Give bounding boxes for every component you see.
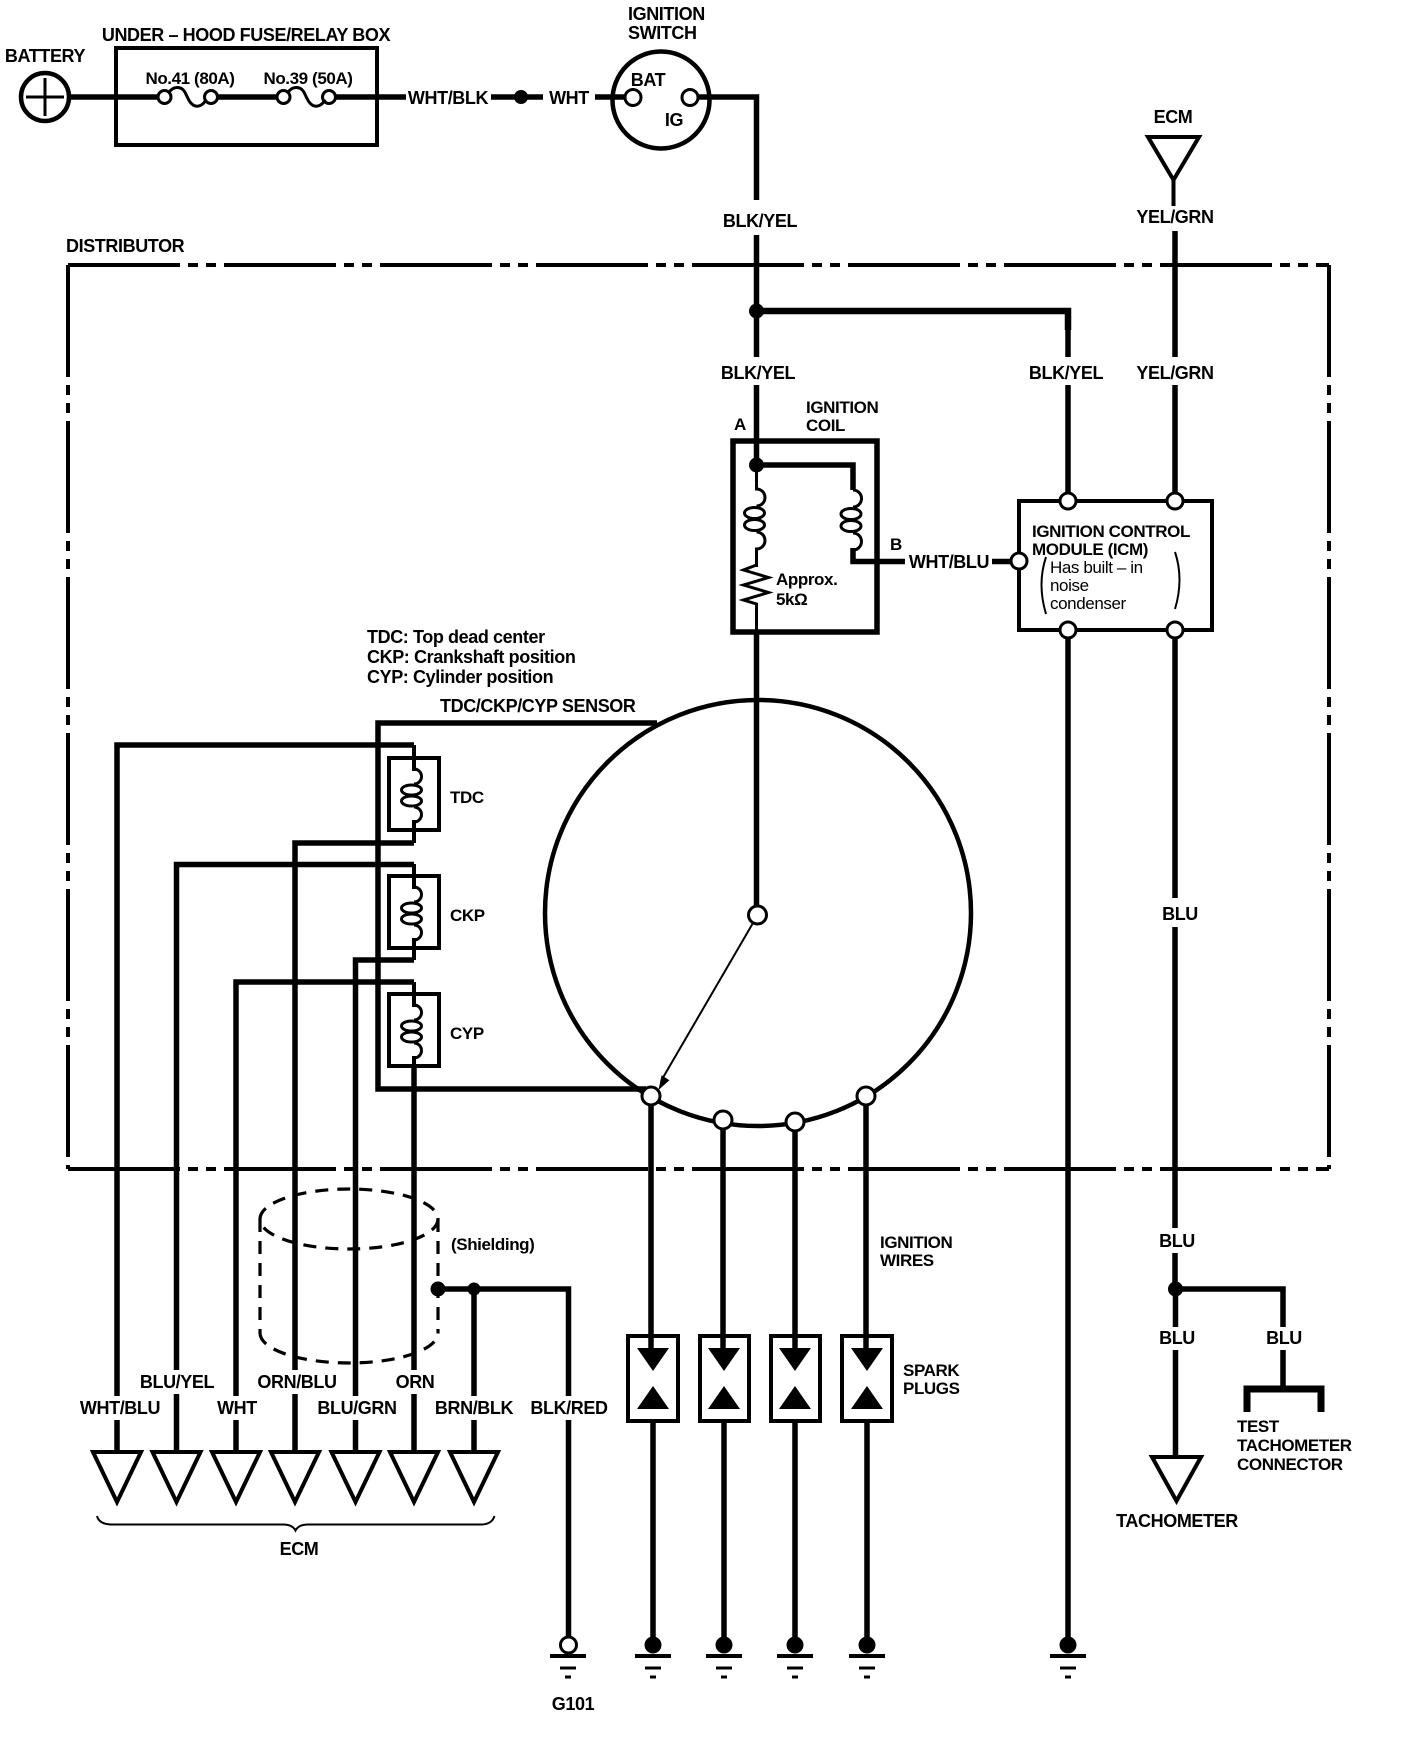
- svg-text:5kΩ: 5kΩ: [776, 590, 807, 609]
- ECM triangle 2: [153, 1452, 201, 1502]
- rotor terminal 3: [786, 1113, 804, 1131]
- wire CYP P (WHT): [236, 982, 414, 1396]
- junction dot node on BLK/YEL: [749, 304, 764, 319]
- terminal BAT: [625, 90, 641, 106]
- svg-text:A: A: [734, 415, 746, 434]
- wire TDC P to ECM (WHT/BLU): [117, 745, 414, 1396]
- svg-text:IGNITION: IGNITION: [806, 398, 878, 417]
- wire tachometer leg: [1173, 1289, 1179, 1327]
- junction dot shield drain: [431, 1282, 446, 1297]
- wire stub BLU/YEL to ECM: [174, 1394, 180, 1454]
- svg-text:YEL/GRN: YEL/GRN: [1136, 207, 1213, 227]
- ignition wire 4: [863, 1105, 869, 1350]
- wire CKP P (BLU/YEL): [177, 865, 415, 1371]
- svg-text:BLK/RED: BLK/RED: [530, 1398, 608, 1418]
- svg-text:WHT/BLU: WHT/BLU: [909, 552, 989, 572]
- ICM terminal bottom left: [1060, 622, 1076, 638]
- svg-text:WIRES: WIRES: [880, 1251, 934, 1270]
- wire stub BRN/BLK to ECM: [471, 1420, 477, 1454]
- wire ICM bottom right down: [1172, 638, 1178, 898]
- svg-text:CYP: CYP: [450, 1024, 484, 1043]
- spark plug 4: [842, 1336, 892, 1421]
- wire test connector leg: [1280, 1350, 1286, 1387]
- distributor boundary (dash-dot box): [68, 265, 1329, 1169]
- wire into fuse 41: [114, 94, 159, 100]
- rotor center pivot: [749, 906, 767, 924]
- shielding cylinder: [260, 1189, 438, 1363]
- sensor box boundary: [378, 723, 657, 1089]
- svg-text:BLU: BLU: [1159, 1328, 1195, 1348]
- wire fuse box to WHT/BLK label: [336, 94, 407, 100]
- wire CKP M (BLU/GRN): [356, 960, 415, 1396]
- rotor terminal 2: [714, 1111, 732, 1129]
- svg-text:SPARK: SPARK: [903, 1361, 960, 1380]
- battery B1: [21, 73, 69, 121]
- distributor rotor circle: [545, 700, 971, 1126]
- wire BLK/YEL label to coil terminal A: [754, 385, 760, 467]
- ground spark plug 3: [777, 1637, 813, 1678]
- svg-text:MODULE (ICM): MODULE (ICM): [1032, 540, 1148, 559]
- resistor Approx. 5k ohm: [744, 565, 769, 635]
- svg-text:No.41 (80A): No.41 (80A): [145, 69, 234, 88]
- CYP pickup coil: [389, 982, 439, 1068]
- ICM terminal left: [1011, 553, 1027, 569]
- svg-text:WHT/BLU: WHT/BLU: [80, 1398, 160, 1418]
- svg-text:IG: IG: [665, 110, 683, 130]
- svg-text:IGNITION: IGNITION: [880, 1233, 952, 1252]
- svg-text:ECM: ECM: [280, 1539, 319, 1559]
- wire BLK/YEL label to ICM top: [1065, 385, 1071, 497]
- svg-text:noise: noise: [1050, 576, 1089, 595]
- wire BLK/YEL branch down to ICM: [1065, 325, 1071, 357]
- svg-text:(Shielding): (Shielding): [451, 1235, 534, 1254]
- ignition wire 1: [648, 1105, 654, 1350]
- ignition coil T1 box: [733, 441, 877, 632]
- wire junction to ICM branch: [753, 311, 1068, 330]
- wire WHT to ignition switch BAT: [595, 94, 626, 100]
- svg-text:TACHOMETER: TACHOMETER: [1237, 1436, 1352, 1455]
- wire BRN/BLK down: [471, 1289, 477, 1396]
- rotor arm arrow: [659, 923, 754, 1090]
- svg-text:COIL: COIL: [806, 416, 845, 435]
- spark plug ground wire 1: [650, 1421, 656, 1641]
- ECM triangle 4: [271, 1452, 319, 1502]
- junction dot on WHT wire: [514, 90, 528, 104]
- under-hood fuse/relay box: [116, 48, 377, 145]
- wire IG to BLK/YEL vertical: [698, 97, 757, 200]
- legend TDC/CKP/CYP: [367, 627, 575, 687]
- svg-text:DISTRIBUTOR: DISTRIBUTOR: [66, 236, 185, 256]
- spark plug ground wire 4: [864, 1421, 870, 1641]
- wire stub ORN to ECM: [411, 1394, 417, 1454]
- svg-text:SWITCH: SWITCH: [628, 23, 697, 43]
- svg-text:CKP: Crankshaft position: CKP: Crankshaft position: [367, 647, 575, 667]
- ICM terminal top left: [1060, 493, 1076, 509]
- G101 ground: [550, 1637, 586, 1677]
- wire coil to rotor center: [754, 630, 760, 908]
- svg-text:WHT/BLK: WHT/BLK: [408, 88, 489, 108]
- svg-text:BLU: BLU: [1159, 1231, 1195, 1251]
- svg-text:BLU/YEL: BLU/YEL: [140, 1372, 215, 1392]
- svg-text:CKP: CKP: [450, 906, 485, 925]
- svg-text:Approx.: Approx.: [776, 570, 837, 589]
- svg-text:BATTERY: BATTERY: [5, 46, 86, 66]
- ground for ICM wire: [1050, 1637, 1086, 1678]
- wire ICM bottom left to ground: [1065, 638, 1071, 1641]
- wire stub BLU/GRN to ECM: [353, 1420, 359, 1454]
- ignition wire 3: [792, 1131, 798, 1350]
- wire secondary to terminal B: [853, 548, 905, 562]
- svg-text:Has built – in: Has built – in: [1050, 558, 1143, 577]
- svg-text:BLK/YEL: BLK/YEL: [723, 211, 798, 231]
- junction dot coil primary/secondary: [749, 458, 764, 473]
- TDC pickup coil: [389, 745, 439, 843]
- secondary winding: [841, 490, 862, 550]
- svg-text:TDC/CKP/CYP SENSOR: TDC/CKP/CYP SENSOR: [440, 696, 636, 716]
- svg-text:BRN/BLK: BRN/BLK: [435, 1398, 514, 1418]
- ECM triangle 1: [93, 1452, 141, 1502]
- svg-text:WHT: WHT: [217, 1398, 257, 1418]
- svg-text:UNDER – HOOD FUSE/RELAY BOX: UNDER – HOOD FUSE/RELAY BOX: [102, 25, 391, 45]
- svg-text:CONNECTOR: CONNECTOR: [1237, 1455, 1343, 1474]
- wire between fuses: [218, 94, 278, 100]
- svg-text:BLU: BLU: [1266, 1328, 1302, 1348]
- svg-text:BAT: BAT: [631, 70, 666, 90]
- wire battery to fuse box: [67, 94, 118, 100]
- wire BLU down to dash-dot crossing: [1172, 927, 1178, 1228]
- svg-text:BLU: BLU: [1162, 904, 1198, 924]
- ECM triangle 5: [332, 1452, 380, 1502]
- spark plug ground wire 3: [792, 1421, 798, 1641]
- wire branch to test connector: [1172, 1289, 1283, 1327]
- spark plug 1: [628, 1336, 678, 1421]
- svg-text:IGNITION CONTROL: IGNITION CONTROL: [1032, 522, 1190, 541]
- primary winding: [745, 465, 766, 567]
- ignition switch SW1: [613, 52, 710, 149]
- label SPARK PLUGS: [903, 1361, 960, 1398]
- label Approx. 5k ohm: [776, 570, 837, 609]
- svg-text:YEL/GRN: YEL/GRN: [1136, 363, 1213, 383]
- label TEST TACHOMETER CONNECTOR: [1237, 1417, 1352, 1474]
- svg-text:BLK/YEL: BLK/YEL: [721, 363, 796, 383]
- junction dot BLU tee: [1168, 1282, 1183, 1297]
- junction dot BRN/BLK tap: [468, 1283, 481, 1296]
- wire stub WHT to ECM: [233, 1420, 239, 1454]
- ICM terminal bottom right: [1167, 622, 1183, 638]
- ignition control module ICM box: [1019, 501, 1212, 630]
- wire ECM triangle down: [1172, 180, 1176, 206]
- svg-text:BLU/GRN: BLU/GRN: [317, 1398, 396, 1418]
- label IGNITION CONTROL MODULE (ICM): [1032, 522, 1190, 614]
- ECM connector (top right): [1148, 107, 1199, 180]
- wire shield drain: [438, 1289, 569, 1396]
- wire CYP M (ORN): [411, 1066, 417, 1370]
- ignition wire 2: [720, 1129, 726, 1350]
- svg-text:condenser: condenser: [1050, 594, 1127, 613]
- svg-text:TACHOMETER: TACHOMETER: [1116, 1511, 1238, 1531]
- wire stub ORN/BLU to ECM: [292, 1394, 298, 1454]
- ECM brace: [97, 1516, 495, 1531]
- label IGNITION COIL: [806, 398, 878, 435]
- label IGNITION WIRES: [880, 1233, 952, 1270]
- svg-text:ORN: ORN: [396, 1372, 435, 1392]
- CKP pickup coil: [389, 864, 439, 960]
- svg-text:G101: G101: [552, 1694, 595, 1714]
- svg-text:No.39 (50A): No.39 (50A): [263, 69, 352, 88]
- spark plug ground wire 2: [721, 1421, 727, 1641]
- spark plug 3: [771, 1336, 820, 1421]
- svg-text:ECM: ECM: [1154, 107, 1193, 127]
- wire stub WHT/BLU to ECM: [114, 1420, 120, 1454]
- svg-text:ORN/BLU: ORN/BLU: [257, 1372, 336, 1392]
- wire YEL/GRN label to ICM top: [1172, 385, 1178, 497]
- wire BLK/YEL down to junction: [754, 235, 760, 357]
- ground spark plug 4: [849, 1637, 885, 1678]
- wire TDC M (ORN/BLU): [295, 843, 414, 1370]
- svg-text:BLK/YEL: BLK/YEL: [1029, 363, 1104, 383]
- rotor terminal 4: [857, 1087, 875, 1105]
- fuse No.41 (80A): [145, 69, 234, 106]
- test tachometer connector: [1247, 1389, 1321, 1412]
- ECM triangle 7: [450, 1452, 498, 1502]
- wire coil internal top: [757, 465, 854, 490]
- spark plug 2: [700, 1336, 749, 1421]
- wire WHT/BLK to WHT: [491, 94, 543, 100]
- ECM triangle 3: [212, 1452, 260, 1502]
- terminal IG: [682, 90, 698, 106]
- svg-text:TDC: Top dead center: TDC: Top dead center: [367, 627, 545, 647]
- ground spark plug 2: [706, 1637, 742, 1678]
- fuse No.39 (50A): [263, 69, 352, 106]
- svg-text:TDC: TDC: [450, 788, 484, 807]
- tachometer connector triangle: [1152, 1457, 1201, 1501]
- ground spark plug 1: [635, 1637, 671, 1678]
- label IGNITION SWITCH: [628, 4, 705, 43]
- ICM terminal top right: [1167, 493, 1183, 509]
- svg-text:CYP: Cylinder position: CYP: Cylinder position: [367, 667, 553, 687]
- wire BLU to junction: [1172, 1253, 1178, 1292]
- svg-text:PLUGS: PLUGS: [903, 1379, 960, 1398]
- svg-text:WHT: WHT: [549, 88, 589, 108]
- wire WHT/BLU to ICM: [992, 559, 1013, 565]
- ECM triangle 6: [390, 1452, 438, 1502]
- svg-text:TEST: TEST: [1237, 1417, 1280, 1436]
- svg-text:IGNITION: IGNITION: [628, 4, 705, 24]
- svg-text:B: B: [890, 535, 902, 554]
- wire YEL/GRN down to ICM: [1172, 231, 1178, 357]
- wire stub BLK/RED to G101: [566, 1420, 572, 1641]
- rotor terminal 1: [642, 1087, 660, 1105]
